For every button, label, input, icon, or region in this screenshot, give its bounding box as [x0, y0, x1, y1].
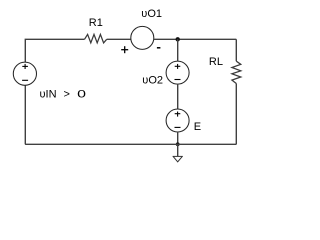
minus sign inside vIN: [22, 79, 28, 81]
svg-text:E: E: [194, 121, 201, 133]
svg-text:>: >: [64, 89, 70, 101]
resistor RL: [232, 61, 241, 83]
source vO2: [166, 61, 189, 84]
wire node down to vO2: [177, 39, 179, 61]
svg-text:υO2: υO2: [142, 75, 163, 87]
svg-text:R1: R1: [89, 17, 103, 29]
wire top-right corner down to RL: [235, 39, 237, 61]
source E: [166, 109, 189, 132]
plus sign of vO1: [121, 46, 128, 53]
svg-text:υIN: υIN: [40, 89, 57, 101]
wire left bottom (source to corner): [24, 85, 26, 144]
source vIN: [13, 62, 36, 85]
svg-text:RL: RL: [209, 56, 223, 68]
wire top-left segment (corner to R1): [25, 39, 84, 62]
wire vO2 to E: [177, 84, 179, 109]
ground stem: [177, 144, 179, 156]
wire R1 to vO1: [107, 38, 131, 40]
minus sign inside E: [175, 126, 181, 128]
node junction dot bottom: [176, 142, 180, 146]
plus sign inside vO2: [175, 64, 181, 69]
svg-text:0: 0: [77, 88, 86, 100]
bottom wire: [25, 143, 236, 145]
plus sign inside E: [175, 112, 181, 117]
ground: [173, 156, 183, 161]
plus sign inside vIN: [22, 64, 28, 69]
svg-text:υO1: υO1: [141, 8, 162, 20]
source U vO1: [131, 26, 154, 49]
wire vO1 to top-right corner: [154, 38, 237, 40]
wire E to bottom node: [177, 132, 179, 144]
minus sign inside vO2: [175, 79, 181, 81]
resistor R1: [85, 34, 107, 43]
minus sign of vO1: [157, 47, 161, 49]
wire RL to bottom-right corner: [235, 84, 237, 145]
node junction dot top: [176, 37, 180, 41]
